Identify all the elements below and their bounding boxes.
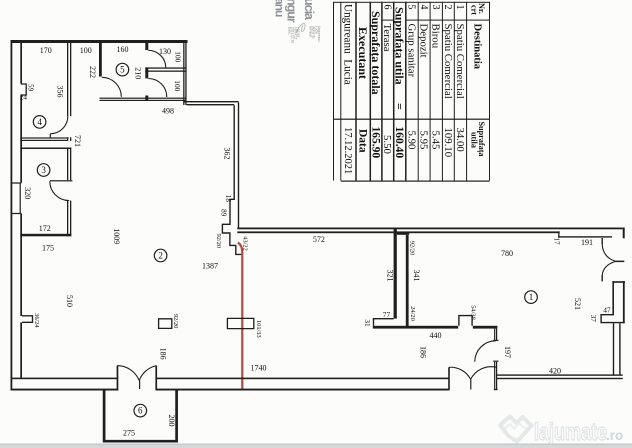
svg-text:165.90: 165.90 [369, 127, 381, 159]
wall: W lower line b [496, 362, 497, 390]
wall: cell divider line b [145, 71, 186, 72]
bottom-centre door arc right [471, 367, 497, 380]
svg-text:=: = [393, 103, 407, 110]
svg-text:5.90: 5.90 [405, 131, 417, 150]
svg-text:572: 572 [313, 235, 325, 244]
svg-text:222: 222 [88, 66, 97, 78]
wall: W upper line b [496, 329, 497, 341]
door arc room 4 [50, 116, 68, 134]
door arc room 3 [50, 181, 69, 200]
svg-text:210: 210 [134, 67, 143, 79]
wall: bottom left section, lower line seg1 [11, 389, 119, 391]
svg-text:Ungureanu Lucia: Ungureanu Lucia [342, 4, 354, 85]
svg-text:170: 170 [40, 46, 52, 55]
svg-text:89: 89 [219, 209, 227, 217]
bottom-centre door arc left [449, 367, 470, 379]
wall: C x406 (92/20-24/20) [406, 235, 409, 326]
svg-text:100: 100 [173, 80, 182, 91]
red demolition line [238, 243, 243, 391]
svg-text:Executant: Executant [356, 27, 370, 79]
pillar 54/38 notch [459, 316, 472, 326]
svg-text:Spatiu Comercial: Spatiu Comercial [454, 24, 466, 99]
svg-text:4: 4 [418, 5, 429, 10]
wall: bottom right section lower line [497, 378, 623, 379]
svg-text:2: 2 [158, 251, 163, 261]
svg-text:Birou: Birou [430, 24, 442, 49]
svg-text:36/24: 36/24 [33, 313, 40, 328]
svg-text:crt: crt [469, 5, 478, 15]
wall: 440 long, left part [373, 326, 458, 329]
wall: left inner seg1 [20, 43, 22, 84]
svg-text:2: 2 [442, 5, 453, 10]
wall: room3 right upper a [67, 148, 68, 181]
svg-text:Destinatia: Destinatia [472, 24, 483, 70]
svg-text:+02'00': +02'00' [296, 27, 300, 38]
wall: B x394 (321) [394, 229, 397, 319]
svg-text:Spatiu Comercial: Spatiu Comercial [442, 24, 454, 99]
svg-text:6: 6 [138, 406, 143, 416]
svg-text:Data: Data [356, 129, 368, 153]
pillar 47/37 in right wall [601, 315, 625, 323]
svg-text:175: 175 [42, 243, 54, 252]
entrance door arc upper [602, 244, 615, 261]
entrance upper door leaf stub [602, 238, 603, 244]
lajumate watermark logo [500, 417, 532, 442]
door arc room 5 [102, 77, 122, 97]
svg-text:100: 100 [80, 46, 92, 55]
svg-text:510: 510 [65, 295, 74, 307]
svg-text:1740: 1740 [251, 364, 267, 373]
bottom-centre door leaf stub [470, 379, 471, 389]
svg-text:420: 420 [549, 367, 561, 376]
entrance lower door leaf stub [602, 275, 603, 281]
svg-text:498: 498 [162, 107, 174, 116]
wall: bottom left section, upper line seg2 [156, 378, 450, 380]
terrace double door arc left [118, 366, 140, 381]
wall: right inner (283-314) [612, 281, 614, 314]
svg-text:Depozit: Depozit [418, 24, 430, 58]
wall: 440 long, right part [473, 326, 498, 329]
signature swirl [296, 23, 305, 33]
wall: W bottom cap [494, 389, 498, 390]
wall: top-section bottom line b [100, 100, 187, 101]
wall: W upper line a [494, 329, 495, 341]
svg-text:440: 440 [430, 331, 442, 340]
pillar 92/20 box in room 2 [159, 319, 172, 329]
entrance doors meeting tick [615, 261, 625, 263]
terrace double door arc right [139, 366, 156, 381]
wall: bottom left section, lower line seg2 [156, 389, 450, 391]
room number 5 circle [116, 63, 129, 76]
svg-text:utila: utila [469, 132, 478, 148]
wall: 17 step [558, 231, 559, 237]
wall: room4 bottom line a [20, 137, 68, 138]
svg-text:130: 130 [159, 47, 171, 56]
svg-text:100: 100 [174, 51, 183, 62]
wall: 31 step vertical [373, 318, 374, 326]
door arc cell 2 [148, 79, 167, 98]
svg-text:5.95: 5.95 [418, 131, 430, 150]
svg-text:186: 186 [158, 348, 167, 360]
svg-text:1: 1 [529, 292, 534, 302]
wall: 77 step horizontal [373, 318, 394, 319]
wall: room4 right upper, line b [70, 43, 71, 116]
svg-text:Ungureanu: Ungureanu [317, 26, 321, 42]
wall: right window band b [619, 323, 620, 375]
svg-text:521: 521 [573, 298, 582, 310]
double door post left (bottom-centre) [448, 367, 450, 390]
wall: right outer (283-323) [623, 281, 625, 323]
wall: 222 (room5 left) [99, 43, 102, 77]
svg-text:17.12.2021: 17.12.2021 [342, 127, 353, 174]
room number 2 circle [154, 249, 167, 262]
wall: room3 top [20, 148, 71, 150]
door arc 197 [475, 341, 496, 362]
svg-text:5.45: 5.45 [430, 131, 442, 150]
room number 6 circle [134, 404, 147, 417]
terrace door leaf stub [139, 381, 140, 390]
svg-text:321: 321 [385, 270, 394, 282]
svg-text:.ro: .ro [606, 428, 623, 443]
entrance door arc lower [602, 262, 615, 276]
svg-text:186: 186 [418, 346, 427, 358]
wall: room2/room1 top outer line [237, 228, 622, 230]
wall: bottom left section, upper line seg1 [11, 378, 119, 380]
wall: left inner seg2 [20, 96, 22, 183]
pillar 101/33 box in room 2 [227, 318, 253, 328]
svg-text:4: 4 [37, 117, 42, 127]
svg-text:172: 172 [39, 224, 51, 233]
svg-text:1387: 1387 [202, 262, 218, 271]
wall: cell divider line a [145, 67, 186, 68]
wall: right outer above doors [623, 228, 625, 239]
door arc cell 1 [148, 50, 166, 68]
wall: room3 right upper b [70, 148, 71, 181]
svg-text:191: 191 [581, 238, 593, 247]
wall: top-section right outer a [183, 40, 184, 105]
wall: right window band a [613, 323, 614, 375]
wall: step lower line [187, 104, 235, 105]
wall: room4 right stub a [67, 137, 68, 141]
svg-text:lajumate: lajumate [534, 419, 607, 446]
svg-text:54/38: 54/38 [469, 305, 476, 320]
terrace door post left [117, 366, 119, 391]
svg-text:362: 362 [223, 148, 232, 160]
svg-text:5.50: 5.50 [381, 135, 393, 154]
wall: left inner seg4 [20, 322, 22, 378]
pillar 36/24 on left wall [22, 316, 33, 323]
svg-text:200: 200 [167, 415, 176, 427]
room number 3 circle [37, 164, 50, 177]
svg-text:721: 721 [73, 135, 82, 147]
svg-text:92/20: 92/20 [408, 241, 415, 256]
svg-text:275: 275 [123, 429, 135, 438]
wall: bottom right section upper line [497, 374, 623, 375]
wall: 191 window inner line [558, 236, 612, 237]
svg-text:1: 1 [454, 5, 465, 10]
terrace room 6 walls [104, 390, 177, 441]
svg-text:77: 77 [383, 310, 391, 319]
svg-text:17: 17 [552, 237, 560, 245]
wall: top outer (x10-187) [11, 40, 188, 43]
svg-text:24/20: 24/20 [409, 306, 416, 321]
svg-text:109.10: 109.10 [442, 128, 454, 158]
wall: room3 bottom [20, 234, 71, 237]
svg-text:160: 160 [117, 45, 129, 54]
photo bottom gray bar [0, 444, 632, 448]
door leaf room 3 (open, horizontal) [50, 180, 72, 181]
svg-text:59: 59 [26, 84, 34, 92]
wall: room3 right lower a [67, 201, 68, 237]
svg-text:341: 341 [412, 270, 421, 282]
wall: cells left seg1 [145, 43, 148, 51]
door leaf stub room 4 [50, 134, 51, 138]
svg-text:197: 197 [503, 346, 512, 358]
svg-text:37: 37 [589, 315, 597, 323]
wall: room4 bottom line b [20, 140, 68, 141]
svg-text:92/20: 92/20 [172, 314, 179, 329]
wall: room4 right upper, line a [67, 43, 68, 116]
door 197 post top [493, 340, 498, 341]
svg-text:31: 31 [363, 319, 371, 327]
svg-text:34.00: 34.00 [454, 128, 466, 152]
wall: descending right line (362) [238, 102, 239, 227]
table grid lines [333, 2, 334, 181]
svg-text:780: 780 [501, 249, 513, 258]
window 320 in left wall of room 3 [11, 183, 21, 214]
wall: left inner seg3 [20, 214, 22, 317]
svg-text:ucia: ucia [302, 0, 316, 21]
svg-text:43/22: 43/22 [242, 236, 249, 251]
svg-text:18: 18 [224, 195, 232, 203]
terrace door post right [155, 366, 157, 391]
svg-text:3: 3 [430, 5, 441, 10]
wall: descending left zigzag (18/89/92-20) [222, 105, 241, 254]
svg-text:3: 3 [41, 165, 46, 175]
pillar 24x59 on left wall of room 4 [21, 84, 26, 95]
room number 4 circle [33, 116, 46, 129]
svg-text:356: 356 [55, 86, 64, 98]
wall: step upper line (x184-238) [183, 101, 238, 102]
wall: W lower line a [494, 362, 495, 390]
svg-text:92/20: 92/20 [215, 234, 222, 249]
wall: room4 right stub b [70, 137, 71, 141]
svg-text:anu: anu [273, 0, 287, 17]
room number 1 circle [525, 291, 538, 304]
svg-text:5: 5 [120, 65, 125, 75]
svg-text:24: 24 [20, 93, 28, 101]
wall: stub to C [397, 233, 409, 235]
door 197 post bottom [493, 361, 498, 362]
wall: cells left seg2 [145, 67, 148, 78]
wall: top-section bottom line a [100, 98, 187, 99]
wall: left outer line (full height) [11, 40, 13, 391]
wall: room3 right lower b [70, 201, 71, 237]
wall: room2/room1 top inner line [237, 231, 559, 233]
wall: cap below doors [612, 281, 625, 283]
wall: top-section right outer b [185, 40, 186, 105]
svg-text:6: 6 [382, 5, 393, 10]
svg-text:160.40: 160.40 [393, 127, 405, 159]
svg-text:101/33: 101/33 [255, 320, 262, 338]
svg-text:47: 47 [603, 306, 611, 315]
svg-text:320: 320 [23, 187, 32, 199]
svg-text:1009: 1009 [112, 228, 121, 244]
wall: cells left seg3 [145, 96, 148, 101]
